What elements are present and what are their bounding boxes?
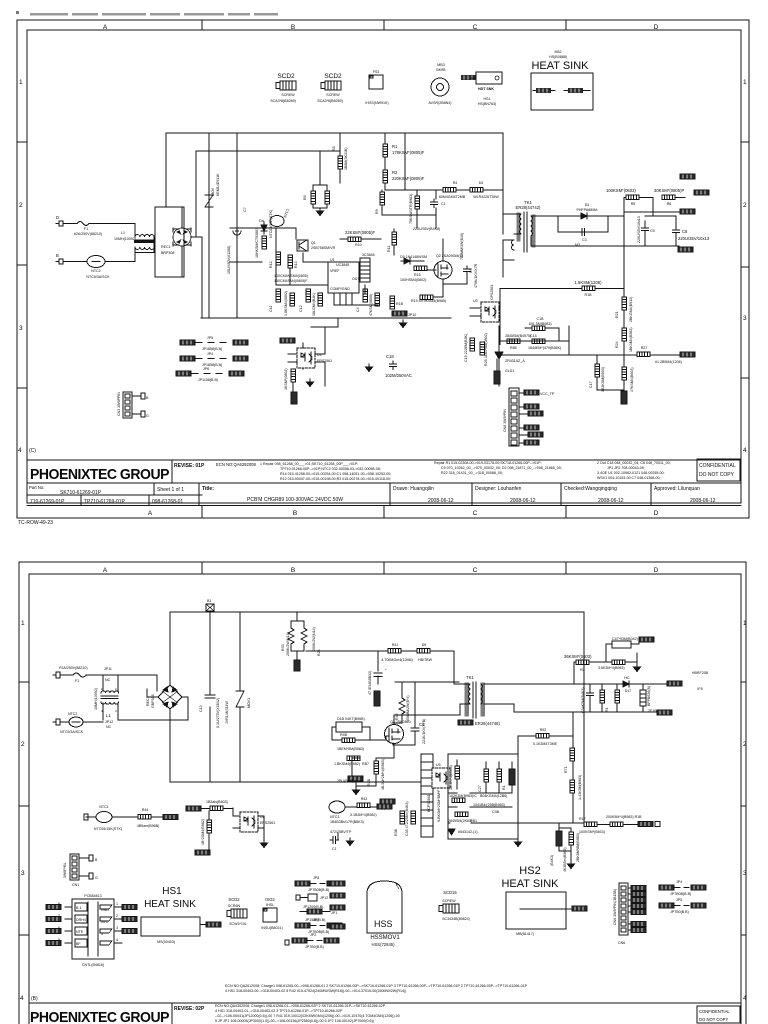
p2 secondary wires	[484, 684, 624, 712]
CN8 connector body	[509, 388, 519, 446]
p2 pill below snubber cap	[374, 691, 380, 706]
svg-text:HS2: HS2	[519, 865, 540, 877]
svg-text:710-61269-01P: 710-61269-01P	[30, 499, 65, 505]
p2 Q1 MOSFET	[385, 725, 404, 744]
p2 out pill right	[667, 681, 682, 686]
R11 vertical resistor	[392, 232, 397, 245]
secondary top wire	[545, 215, 624, 217]
svg-text:G: G	[95, 876, 98, 880]
svg-text:36KSM*(0603): 36KSM*(0603)	[564, 654, 592, 659]
svg-text:B1: B1	[207, 599, 211, 603]
page1 top margin smudge text	[30, 13, 278, 16]
svg-text:750MM/3W(B16): 750MM/3W(B16)	[460, 233, 464, 260]
p2 JP4 jumper	[659, 885, 674, 890]
feedback drop wire	[499, 289, 501, 345]
JP10 pill	[392, 311, 407, 316]
svg-text:JP8: JP8	[313, 876, 319, 880]
p2 D9 diode row	[401, 650, 417, 652]
svg-text:A: A	[103, 567, 108, 574]
aux winding	[512, 240, 515, 250]
p2 bridge stubs	[147, 689, 188, 703]
C9 cap	[464, 266, 471, 275]
p2 L1 winding top	[101, 691, 119, 693]
svg-text:Checked:Wangqingqing: Checked:Wangqingqing	[564, 486, 617, 492]
svg-text:4: 4	[743, 995, 747, 1002]
svg-text:#1.2B5M4(1206): #1.2B5M4(1206)	[655, 360, 682, 364]
HS2 inner line	[520, 908, 580, 910]
p2 R1 vertical	[497, 769, 502, 782]
svg-text:100KSM*(0603): 100KSM*(0603)	[606, 188, 636, 193]
svg-text:U3: U3	[473, 299, 478, 303]
HS1 pill right	[206, 922, 221, 927]
svg-text:221K/1KV(X7B): 221K/1KV(X7B)	[422, 719, 426, 744]
svg-text:18LGM4(B4K): 18LGM4(B4K)	[312, 293, 316, 316]
page1 top column ticks	[202, 20, 566, 30]
svg-text:L1: L1	[106, 713, 111, 718]
long feedback horizontal	[497, 341, 680, 401]
svg-text:R4: R4	[453, 181, 458, 185]
svg-text:Designer: Louhanfen: Designer: Louhanfen	[475, 486, 522, 492]
svg-text:NTC05/15K(STK): NTC05/15K(STK)	[94, 827, 122, 831]
svg-text:15U/450V(01288): 15U/450V(01288)	[227, 246, 231, 274]
JP12 jumper	[296, 895, 308, 900]
wires in ctrl area	[382, 190, 436, 228]
bridge REC1 diamond	[173, 228, 191, 246]
svg-text:HC: HC	[624, 676, 630, 680]
svg-text:1B4B3Bs/17R(B8K3): 1B4B3Bs/17R(B8K3)	[330, 820, 364, 824]
svg-text:Part No:: Part No:	[29, 485, 44, 490]
svg-text:BFPB636(B): BFPB636(B)	[647, 686, 651, 706]
svg-text:REVISE: 01P: REVISE: 01P	[174, 463, 205, 469]
svg-text:R33: R33	[281, 644, 285, 651]
svg-text:VCC_TP: VCC_TP	[540, 392, 555, 396]
svg-text:102K3M(B983)/C: 102K3M(B983)/C	[449, 794, 477, 798]
svg-text:RB1: RB1	[470, 819, 477, 823]
svg-text:B: B	[291, 567, 295, 574]
svg-text:2: 2	[21, 741, 25, 748]
svg-text:3: 3	[116, 926, 118, 930]
p2 C1 cap	[330, 837, 339, 844]
svg-text:Da: Da	[259, 219, 264, 223]
svg-text:200K/2W(N14): 200K/2W(N14)	[312, 627, 316, 651]
CN3 connector	[123, 392, 132, 418]
svg-text:F1: F1	[84, 227, 88, 231]
U1 side box	[360, 258, 370, 282]
svg-text:3: 3	[115, 709, 117, 713]
svg-text:HBRF20B: HBRF20B	[692, 671, 709, 675]
page2 title block (partially visible at bottom)	[29, 1003, 741, 1024]
p2 out pill lower	[657, 710, 672, 715]
CN8 pill 4	[519, 427, 524, 429]
svg-text:CPS2561: CPS2561	[490, 285, 494, 300]
svg-text:JP10: JP10	[408, 313, 416, 317]
svg-text:SK710-61269-01P: SK710-61269-01P	[60, 490, 102, 496]
svg-text:C9 070_10262_00_->070_00032_00: C9 070_10262_00_->070_00032_00; D2 098_2…	[441, 466, 562, 470]
p2 U2 opto	[240, 812, 258, 832]
svg-text:SCREW: SCREW	[281, 93, 295, 97]
page2 title block outline	[29, 1002, 741, 1004]
ground arrow left of C10	[366, 364, 373, 372]
svg-text:4B5am(B96B): 4B5am(B96B)	[137, 824, 160, 828]
p2 C vertical dark pair	[556, 831, 562, 846]
svg-text:R4B: R4B	[340, 733, 348, 737]
svg-text:R21: R21	[615, 311, 619, 318]
FS3 insulator box	[369, 75, 383, 89]
svg-text:2008-06-12: 2008-06-12	[510, 498, 536, 504]
svg-text:R6: R6	[667, 202, 672, 206]
svg-text:R12: R12	[269, 261, 273, 268]
svg-text:220U/35V/10x13: 220U/35V/10x13	[637, 216, 641, 243]
p2 IC right pin boxes	[100, 905, 112, 945]
svg-text:HSS: HSS	[374, 919, 393, 929]
HSS cylinder	[367, 881, 402, 933]
svg-text:C5: C5	[650, 229, 655, 233]
svg-text:CNTL(B4816): CNTL(B4816)	[82, 963, 104, 967]
svg-text:R14 015-41258-00->015-00254-00: R14 015-41258-00->015-00254-00;C1 058-14…	[280, 472, 391, 476]
svg-text:150CM4SM4(0805)F: 150CM4SM4(0805)F	[274, 279, 308, 283]
top rail drop to transformer	[502, 133, 504, 200]
svg-text:1B8M(3K31B): 1B8M(3K31B)	[344, 147, 348, 170]
svg-text:CN8 3W8*PIN: CN8 3W8*PIN	[503, 409, 507, 432]
svg-text:JP7B0B(B.B): JP7B0B(B.B)	[670, 892, 691, 896]
shield box around bridge	[155, 207, 184, 277]
svg-text:(C): (C)	[29, 448, 36, 454]
svg-text:R24: R24	[615, 341, 619, 348]
svg-text:GND: GND	[101, 908, 109, 912]
svg-text:150MM/2W(B*4): 150MM/2W(B*4)	[406, 695, 410, 722]
svg-text:SCR6N: SCR6N	[228, 904, 241, 908]
svg-text:C4: C4	[356, 307, 360, 312]
p2 wire y682	[395, 681, 459, 683]
U3b opto right	[481, 302, 499, 322]
svg-text:R44: R44	[142, 808, 149, 812]
svg-text:A: A	[148, 510, 153, 517]
svg-text:2: 2	[743, 202, 747, 209]
svg-text:MB3: MB3	[437, 63, 444, 67]
p2 D18 box row	[336, 722, 362, 732]
svg-text:60M4GM4T2MB: 60M4GM4T2MB	[439, 195, 466, 199]
svg-text:JP7B0B(B.B): JP7B0B(B.B)	[308, 888, 329, 892]
p2 U5 tall IC	[421, 754, 433, 837]
svg-text:R1B: R1B	[585, 293, 593, 297]
JP6 jumper row	[176, 371, 191, 376]
svg-text:9-BKSM*2SM*BM*F: 9-BKSM*2SM*BM*F	[437, 789, 441, 822]
svg-text:47./E34B8B32): 47./E34B8B32)	[368, 671, 372, 695]
svg-text:C35 472/25BV(B4K3): C35 472/25BV(B4K3)	[405, 801, 409, 836]
svg-text:D: D	[654, 510, 659, 517]
p2 C13 cap	[205, 695, 215, 698]
svg-text:R43: R43	[361, 797, 368, 801]
svg-text:R12 015-00047-00->015-00198-00: R12 015-00047-00->015-00198-00;R3 015-00…	[280, 477, 391, 481]
svg-text:220KSM*(0805)F: 220KSM*(0805)F	[392, 176, 425, 181]
svg-text:2BKGM4(B912): 2BKGM4(B912)	[629, 297, 633, 322]
svg-text:HS1: HS1	[484, 97, 491, 101]
svg-text:INSU(B8021): INSU(B8021)	[261, 926, 282, 930]
svg-text:B04KGM4(12B6): B04KGM4(12B6)	[480, 794, 507, 798]
R12 resistor	[276, 252, 281, 265]
svg-text:ZR431AZ_A: ZR431AZ_A	[505, 359, 525, 363]
svg-text:2: 2	[743, 741, 747, 748]
p2 JCMP pill	[195, 850, 210, 855]
p2 R92b resistor	[536, 734, 549, 739]
svg-text:JP7B0(B.B): JP7B0(B.B)	[670, 910, 689, 914]
svg-text:30KSM*(0805)P: 30KSM*(0805)P	[654, 188, 684, 193]
svg-text:D3: D3	[585, 203, 590, 207]
svg-text:DRH4: DRH4	[76, 918, 86, 922]
NTC1 circle	[270, 216, 284, 227]
svg-text:R2: R2	[392, 170, 398, 175]
vertical resistor 18HKSM	[262, 236, 267, 249]
svg-text:C17: C17	[589, 381, 593, 388]
HS2 box	[506, 892, 566, 929]
p2 IC pins right	[114, 907, 122, 943]
svg-text:GLD1: GLD1	[505, 369, 514, 373]
wire NTC2 to bridge	[105, 253, 135, 262]
L1 winding lower	[135, 247, 154, 249]
p2 MOV1	[236, 612, 244, 782]
svg-text:Approved: Lilunquan: Approved: Lilunquan	[654, 486, 700, 492]
p2 terminal B live	[53, 672, 60, 678]
svg-text:3.6K3M*4(B983): 3.6K3M*4(B983)	[598, 666, 625, 670]
primary winding	[520, 214, 521, 234]
bridge output wires	[182, 207, 202, 318]
page2 confidential box	[697, 1006, 740, 1023]
svg-text:3: 3	[19, 325, 23, 332]
p2 primary winding	[469, 684, 470, 704]
svg-text:2 Out C18 048_00032_04; C8 048: 2 Out C18 048_00032_04; C8 048_70011_00;	[597, 461, 671, 465]
page1 outer frame	[17, 20, 749, 518]
svg-text:JP1858(B.B): JP1858(B.B)	[202, 347, 222, 351]
C3 cap in loop	[579, 229, 588, 236]
svg-text:R1: R1	[502, 785, 506, 790]
svg-text:Q2 2SA09GM(L): Q2 2SA09GM(L)	[436, 254, 463, 258]
svg-text:3: 3	[743, 870, 747, 877]
rail drop 2	[236, 133, 238, 318]
svg-text:WLR4226T35W: WLR4226T35W	[473, 195, 499, 199]
p2 vertical resistor below	[207, 820, 212, 833]
svg-text:C1: C1	[332, 847, 337, 851]
svg-text:(B): (B)	[31, 996, 38, 1002]
svg-text:100CM4NSM4(0805): 100CM4NSM4(0805)	[274, 274, 308, 278]
output pill top	[680, 174, 695, 179]
output pill mid	[694, 190, 709, 195]
heatsink pad left	[536, 88, 551, 93]
HS2 pill right	[572, 906, 587, 911]
svg-text:R13: R13	[294, 261, 298, 268]
svg-text:HB/TBW: HB/TBW	[418, 658, 433, 662]
heatsink pad right	[568, 88, 583, 93]
svg-text:Drawn: Huangqilin: Drawn: Huangqilin	[393, 486, 434, 492]
primary return wire	[503, 200, 514, 277]
svg-text:JP4: JP4	[676, 880, 682, 884]
svg-text:10MH(10092): 10MH(10092)	[94, 688, 98, 710]
winding hatch left	[517, 213, 520, 241]
svg-text:NTC1: NTC1	[283, 208, 290, 218]
p2 L1 winding bottom	[101, 702, 119, 704]
R9 vertical resistor	[380, 192, 385, 205]
svg-text:B-1: B-1	[76, 906, 82, 910]
svg-text:100KSM*(B603): 100KSM*(B603)	[579, 830, 605, 834]
svg-text:2BU(B4K): 2BU(B4K)	[337, 779, 353, 783]
p2 C47 box	[612, 641, 631, 648]
svg-text:ECN NO:QA2612008; Charge1 098-: ECN NO:QA2612008; Charge1 098-61265-00--…	[225, 984, 528, 988]
ground under pair	[317, 208, 324, 216]
p2 ER28 label pill	[458, 720, 473, 725]
p2 R72 vertical	[570, 780, 575, 793]
svg-text:2SB758SM/VR: 2SB758SM/VR	[311, 246, 336, 250]
bulk cap C7	[233, 220, 241, 241]
svg-text:1KSM*(0802): 1KSM*(0802)	[284, 368, 288, 390]
svg-text:3: 3	[101, 932, 103, 936]
page2 left row ticks	[19, 682, 29, 935]
svg-text:R1: R1	[392, 144, 398, 149]
svg-text:2845SM(2K83): 2845SM(2K83)	[448, 819, 472, 823]
ISO2 box	[263, 908, 277, 922]
svg-text:JP1158(B.B): JP1158(B.B)	[198, 378, 218, 382]
svg-text:C: C	[473, 567, 478, 574]
U3 wires	[287, 343, 325, 369]
svg-text:P2A/250V(88210): P2A/250V(88210)	[59, 666, 88, 670]
p2 2BU pill	[348, 776, 363, 781]
p2 R33 wires + pill	[291, 612, 304, 655]
p2 CN7 ground	[568, 861, 575, 869]
svg-text:JP1 JP2 708-00043-09;: JP1 JP2 708-00043-09;	[607, 466, 645, 470]
svg-text:2008-06-12: 2008-06-12	[598, 498, 624, 504]
svg-text:BF: BF	[76, 942, 81, 946]
SCD2 screw 2 icon	[321, 81, 341, 90]
svg-text:0.1K3M4T3ME: 0.1K3M4T3ME	[533, 742, 558, 746]
svg-text:JVR14NS11W: JVR14NS11W	[225, 700, 229, 724]
svg-text:4B.5M*2M*4(B983): 4B.5M*2M*4(B983)	[381, 759, 385, 790]
p2 R resistor vert out	[600, 690, 605, 703]
svg-text:NTC5/3A/SCK: NTC5/3A/SCK	[86, 275, 110, 279]
R2 resistor	[383, 170, 388, 183]
R chain mid	[622, 328, 627, 341]
secondary bottom wire	[545, 245, 679, 247]
svg-text:1: 1	[21, 620, 25, 627]
svg-text:C6: C6	[682, 229, 688, 234]
svg-text:OUT: OUT	[352, 277, 360, 281]
svg-text:NTC85/15K(STK): NTC85/15K(STK)	[269, 210, 273, 238]
JP5 jumper row	[180, 340, 195, 345]
svg-text:SC3434B(80824): SC3434B(80824)	[442, 917, 470, 921]
svg-text:4.T0M4Gm4(12M6): 4.T0M4Gm4(12M6)	[381, 658, 412, 662]
p2 snubber wires	[393, 682, 415, 745]
svg-text:R8: R8	[332, 146, 336, 151]
svg-text:M52: M52	[555, 50, 562, 54]
p2 left pill column 1	[330, 881, 345, 886]
R below U3	[291, 369, 296, 382]
C10 X cap	[390, 361, 397, 370]
p2 NTC2 terminal	[53, 719, 60, 725]
svg-text:SCW3*10L: SCW3*10L	[229, 922, 247, 926]
svg-text:R85: R85	[510, 346, 517, 350]
svg-text:NTC2: NTC2	[91, 269, 100, 273]
svg-text:1 Repair 098_61268_00___>01;SK: 1 Repair 098_61268_00___>01;SK710_61268_…	[260, 462, 358, 466]
D4 diode row	[456, 189, 470, 191]
p2 R resistor row mid	[210, 806, 223, 811]
JP8 jumper	[295, 881, 310, 886]
svg-text:RB7: RB7	[362, 762, 369, 766]
p2 IC right pills	[122, 905, 137, 910]
svg-text:R2B: R2B	[367, 778, 371, 786]
svg-text:PCB'M CHGR89 100-300VAC 24VDC: PCB'M CHGR89 100-300VAC 24VDC 50W	[247, 497, 343, 503]
HS1 box	[141, 917, 200, 936]
M52 heatsink box	[531, 73, 593, 110]
page1 title block	[27, 459, 741, 506]
page1 right row ticks	[741, 142, 749, 378]
svg-text:U5: U5	[436, 763, 441, 767]
svg-text:FS3: FS3	[373, 70, 380, 74]
page1 inner frame	[27, 30, 741, 503]
p2 R42 zigzag	[399, 698, 405, 714]
p2 R33 R24 resistors	[288, 628, 294, 644]
title block outline	[27, 459, 741, 461]
svg-text:2: 2	[116, 914, 118, 918]
svg-text:WSV1 004-10153-00 C7 048-01368: WSV1 004-10153-00 C7 048-01368-00;	[597, 476, 661, 480]
svg-text:D5 1N4148WSM: D5 1N4148WSM	[400, 255, 427, 259]
svg-text:KEM14D511K: KEM14D511K	[216, 173, 220, 196]
transformer core	[524, 212, 527, 252]
svg-text:--02-->106-00041(JP12000(0.6)): --02-->106-00041(JP12000(0.6))-00 7 R41 …	[215, 1014, 400, 1018]
svg-text:B: B	[291, 24, 295, 31]
R15 resistor	[414, 266, 427, 271]
svg-text:NTC2: NTC2	[68, 712, 77, 716]
svg-text:B: B	[293, 510, 297, 517]
p2 NTC1 circle	[96, 812, 112, 823]
svg-text:R9: R9	[375, 209, 379, 214]
svg-text:JP12: JP12	[320, 896, 328, 900]
svg-text:HEAT SINK: HEAT SINK	[501, 878, 559, 890]
svg-text:2F1B: 2F1B	[648, 709, 657, 713]
svg-text:3: 3	[21, 870, 25, 877]
pill below	[291, 392, 297, 404]
p2 RB7 resistor row	[347, 756, 360, 761]
svg-text:ECN NO:QA6292008: ECN NO:QA6292008	[216, 462, 256, 467]
svg-text:REVISE: 02P: REVISE: 02P	[174, 1006, 205, 1012]
p2 output diode	[620, 681, 632, 687]
svg-text:1BEM*5M(B983): 1BEM*5M(B983)	[337, 747, 364, 751]
svg-text:220U/35V/10x13: 220U/35V/10x13	[678, 236, 710, 241]
svg-text:1: 1	[116, 902, 118, 906]
C6 cap	[673, 227, 680, 236]
svg-text:75KSM/3TR(B983): 75KSM/3TR(B983)	[409, 194, 413, 224]
p2 C snubber cap plus	[374, 651, 382, 684]
svg-text:JP6: JP6	[203, 367, 209, 371]
p2 R44 resistor	[138, 815, 151, 820]
wire fuse to L1	[106, 224, 135, 236]
JP1 jumper	[307, 909, 322, 914]
terminal B	[56, 259, 63, 264]
sense resistors R19	[420, 295, 433, 300]
svg-text:JP5: JP5	[207, 336, 213, 340]
svg-text:1: 1	[19, 79, 23, 86]
vertical feed wire	[623, 198, 625, 348]
p2 diode row bottom	[448, 829, 455, 835]
svg-text:4: 4	[18, 447, 22, 454]
CN8 pill VCC_TP	[519, 392, 524, 394]
p2 R71 vertical	[570, 748, 575, 761]
secondary winding	[531, 216, 532, 236]
svg-text:PCB84813: PCB84813	[84, 894, 101, 898]
svg-text:Sheet 1 of 1: Sheet 1 of 1	[157, 487, 184, 493]
p2 SLCKB pill	[186, 806, 201, 811]
page2 right row ticks	[741, 682, 746, 935]
svg-text:TC-ROW-49-23: TC-ROW-49-23	[18, 520, 53, 526]
p2 IC left pin boxes	[75, 903, 87, 911]
svg-text:1.BKSM4(B982): 1.BKSM4(B982)	[334, 762, 360, 766]
svg-text:D4: D4	[479, 181, 484, 185]
